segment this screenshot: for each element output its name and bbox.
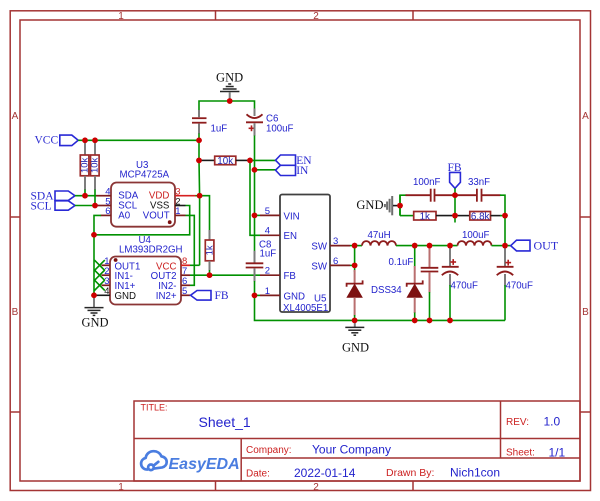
wire L2 to OUT node xyxy=(492,245,506,247)
node 0.1uF rail junction xyxy=(427,318,433,324)
svg-text:A: A xyxy=(12,111,19,122)
svg-text:IN2+: IN2+ xyxy=(156,291,177,302)
frame column tick top 1|2 xyxy=(215,10,217,20)
node SDA/R1 junction xyxy=(82,193,88,199)
node D2 junction xyxy=(412,243,418,249)
U3 pin 6 A0 xyxy=(101,206,131,221)
svg-text:2: 2 xyxy=(265,266,270,277)
svg-text:5: 5 xyxy=(265,206,270,217)
svg-text:GND: GND xyxy=(356,198,383,212)
wire divider left vertical xyxy=(399,195,401,215)
svg-text:REV:: REV: xyxy=(506,417,529,428)
svg-text:GND: GND xyxy=(81,316,108,330)
U4 pin 5 IN2+ xyxy=(156,286,190,302)
U5 pin 5 VIN xyxy=(260,206,300,223)
ground symbol bottom rail xyxy=(342,320,369,354)
wire 6.8k to OUT vertical xyxy=(500,215,505,217)
capacitor 1uF (left decoupling) xyxy=(192,110,227,135)
wire EN vertical to U5 xyxy=(250,160,260,235)
node divider gnd junction xyxy=(397,203,403,209)
node VCC/R2 junction xyxy=(92,138,98,144)
resistor 1k divider xyxy=(400,211,455,222)
node 470uF-1 rail junction xyxy=(447,318,453,324)
svg-text:1: 1 xyxy=(175,206,180,217)
wire 10k to EN node xyxy=(248,159,251,161)
svg-text:1: 1 xyxy=(118,482,124,493)
node divider mid junction xyxy=(452,213,458,219)
svg-text:10k: 10k xyxy=(217,156,233,167)
svg-text:DSS34: DSS34 xyxy=(371,285,402,296)
ground symbol under U4 xyxy=(81,295,108,329)
wire C6 to IN node xyxy=(254,136,256,170)
resistor 10k pullup SDA xyxy=(80,140,91,190)
U5 pin 3 SW xyxy=(311,236,350,253)
wire VSS to ground net xyxy=(94,206,190,235)
U5 pin 2 FB xyxy=(260,266,296,283)
svg-text:FB: FB xyxy=(284,271,296,282)
svg-text:3: 3 xyxy=(333,236,338,247)
wire SW pin3 to node xyxy=(350,245,355,247)
svg-text:4: 4 xyxy=(265,226,270,237)
U5 pin 1 GND xyxy=(260,286,305,303)
svg-text:470uF: 470uF xyxy=(451,280,479,291)
resistor 10k horizontal xyxy=(201,156,249,167)
wire C8 to U5 gnd node xyxy=(254,281,256,295)
wire IN node to IN flag xyxy=(255,169,276,171)
capacitor C6 100uF polarized xyxy=(246,109,294,136)
node 10k feed junction xyxy=(196,158,202,164)
capacitor C8 1uF xyxy=(246,215,277,281)
node D2 rail junction xyxy=(412,318,418,324)
diode D1 DSS34 xyxy=(347,270,363,320)
node top gnd junction xyxy=(227,98,233,104)
comparator U4 LM393DR2GH body xyxy=(110,235,183,305)
wire VIN node to U5 pin5 xyxy=(255,214,261,216)
frame column tick bottom 2|3 xyxy=(412,481,414,491)
wire top gnd rail xyxy=(199,101,255,111)
svg-text:470uF: 470uF xyxy=(506,280,534,291)
svg-text:EasyEDA: EasyEDA xyxy=(169,456,240,473)
node A0/VSS gnd junction xyxy=(91,232,97,238)
junction dots overlay xyxy=(82,98,508,323)
svg-text:Company:: Company: xyxy=(246,445,292,456)
node IN junction xyxy=(252,167,258,173)
wire SW pin6 to node xyxy=(350,264,355,266)
net flag OUT xyxy=(505,239,559,253)
wire R1 to SDA xyxy=(84,190,86,196)
svg-text:GND: GND xyxy=(284,291,306,302)
U4 pin 2 IN1- no-connect cross xyxy=(94,266,132,282)
svg-text:FB: FB xyxy=(215,290,229,302)
svg-text:Drawn By:: Drawn By: xyxy=(386,467,434,479)
svg-text:Sheet_1: Sheet_1 xyxy=(199,414,251,430)
svg-text:A0: A0 xyxy=(118,210,130,221)
svg-text:6: 6 xyxy=(105,206,110,217)
svg-text:10k: 10k xyxy=(90,157,101,173)
wire FB mid vertical xyxy=(454,195,456,222)
svg-text:B: B xyxy=(582,307,589,318)
wire IN node to VIN xyxy=(254,170,256,216)
op-amp U3 MCP4725A body xyxy=(111,160,175,227)
svg-text:1k: 1k xyxy=(420,211,430,222)
svg-text:47uH: 47uH xyxy=(368,230,391,241)
inductor L1 47uH xyxy=(355,230,396,245)
resistor 10k pullup SCL xyxy=(90,140,101,190)
svg-text:GND: GND xyxy=(216,71,243,85)
wire SDA flag to pin4 xyxy=(75,195,96,197)
wire VCC vertical rail xyxy=(198,140,200,160)
node VDD junction xyxy=(197,193,203,199)
title block divider rev column xyxy=(500,401,502,458)
net flag FB top (divider) xyxy=(447,162,461,195)
U3 pin 4 SDA xyxy=(96,187,139,202)
wire U5 gnd pin link xyxy=(255,294,261,296)
node FB flag junction xyxy=(452,192,458,198)
svg-text:SCL: SCL xyxy=(31,200,52,212)
svg-text:LM393DR2GH: LM393DR2GH xyxy=(119,245,183,256)
svg-text:1/1: 1/1 xyxy=(549,446,566,460)
node 0.1uF junction xyxy=(427,243,433,249)
U4 pin 8 VCC xyxy=(156,256,190,272)
svg-text:6: 6 xyxy=(333,256,338,267)
inductor L2 100uF xyxy=(458,230,492,245)
svg-text:100nF: 100nF xyxy=(413,177,441,188)
node divider right junction xyxy=(502,213,508,219)
wire gnd node down to bottom rail xyxy=(255,295,506,320)
svg-text:SW: SW xyxy=(311,242,327,253)
frame row tick right B|C xyxy=(580,411,591,413)
svg-text:MCP4725A: MCP4725A xyxy=(120,170,170,181)
node SCL/R2 junction xyxy=(92,203,98,209)
ground GND top symbol xyxy=(216,71,243,100)
wire EN node to EN flag xyxy=(250,159,276,161)
capacitor 0.1uF xyxy=(389,246,439,321)
svg-text:1.0: 1.0 xyxy=(544,415,561,429)
U4 pin 1 OUT1 no-connect cross xyxy=(94,256,140,272)
U5 pin 6 SW xyxy=(311,256,350,273)
svg-text:1: 1 xyxy=(118,11,124,22)
wire A0 to ground net xyxy=(94,215,101,234)
svg-text:2: 2 xyxy=(313,482,319,493)
wire SW vertical xyxy=(354,246,356,272)
resistor 6.8k divider xyxy=(455,211,501,222)
svg-text:VCC: VCC xyxy=(35,135,59,147)
node OUT2/1k junction xyxy=(207,272,213,278)
svg-text:Your Company: Your Company xyxy=(312,443,391,457)
U4 pin 6 IN2- xyxy=(158,276,190,292)
node OUT junction xyxy=(502,243,508,249)
svg-text:Sheet:: Sheet: xyxy=(506,448,535,459)
frame row tick left A|B xyxy=(10,216,20,218)
net flag SDA xyxy=(31,191,76,203)
U4 pin 7 OUT2 xyxy=(151,266,190,282)
net flag VCC xyxy=(35,135,79,147)
U5 pin 4 EN xyxy=(260,226,297,243)
svg-text:VOUT: VOUT xyxy=(143,210,170,221)
svg-text:GND: GND xyxy=(342,341,369,355)
node U4 gnd junction xyxy=(91,293,97,299)
wire R2 to SCL xyxy=(94,190,96,206)
frame column tick bottom 1|2 xyxy=(215,481,217,491)
node bottom rail gnd junction xyxy=(352,318,358,324)
ground GND sideways symbol xyxy=(356,196,400,215)
wire divider top rail right corner xyxy=(500,195,505,215)
title block divider logo cell xyxy=(240,439,242,482)
U4 pin 3 IN1+ no-connect cross xyxy=(94,276,135,292)
svg-text:GND: GND xyxy=(115,291,137,302)
U3 pin 2 VSS xyxy=(150,196,185,211)
node VCC/R1 junction xyxy=(82,138,88,144)
diode D2 DSS34 xyxy=(371,246,423,321)
capacitor 33nF xyxy=(455,177,501,202)
wire divider top rail left corner xyxy=(400,195,407,215)
svg-text:B: B xyxy=(12,307,19,318)
svg-text:IN: IN xyxy=(296,165,309,177)
svg-text:A: A xyxy=(582,111,589,122)
wire VDD to VCC rail xyxy=(196,195,200,197)
node VCC/1uF junction xyxy=(196,138,202,144)
wire SCL flag to pin5 xyxy=(75,205,96,207)
wire 1uF to VCC rail xyxy=(198,134,200,141)
svg-text:OUT: OUT xyxy=(534,239,559,253)
wire gnd net down to U4 pin4 xyxy=(93,235,95,295)
svg-text:VIN: VIN xyxy=(284,211,300,222)
svg-text:1: 1 xyxy=(265,286,270,297)
node U5 gnd junction xyxy=(252,293,258,299)
net flag FB at U4 xyxy=(191,290,229,302)
node 470uF-1 junction xyxy=(447,243,453,249)
wire VOUT to IN2- xyxy=(186,215,195,285)
title block outline xyxy=(134,401,580,481)
svg-text:5: 5 xyxy=(182,286,187,297)
node VIN junction xyxy=(252,213,258,219)
svg-text:6.8k: 6.8k xyxy=(471,211,490,222)
frame row tick right A|B xyxy=(580,216,591,218)
net flag EN xyxy=(276,155,313,167)
title block divider under title row xyxy=(134,438,580,440)
capacitor 470uF no.1 polarized xyxy=(442,246,478,321)
wire VCC rail to U4 pin8 xyxy=(190,264,200,266)
resistor 1k vertical xyxy=(200,196,216,276)
svg-text:EN: EN xyxy=(284,231,297,242)
svg-text:4: 4 xyxy=(104,286,109,297)
node SW bottom junction xyxy=(352,263,358,269)
U3 pin 5 SCL xyxy=(96,196,138,211)
svg-text:2022-01-14: 2022-01-14 xyxy=(294,466,356,480)
regulator U5 XL4005E1 body xyxy=(280,195,330,314)
svg-text:Date:: Date: xyxy=(246,469,270,480)
wire divider to OUT node vertical xyxy=(504,216,506,246)
U3 pin 3 VDD xyxy=(149,187,196,202)
EasyEDA logo cloud icon xyxy=(141,451,167,470)
wire L1 to output caps xyxy=(396,245,458,247)
frame column tick top 2|3 xyxy=(412,10,414,20)
node EN junction xyxy=(247,158,253,164)
wire VCC flag to rail xyxy=(78,139,199,141)
svg-text:1uF: 1uF xyxy=(211,124,228,135)
svg-text:100uF: 100uF xyxy=(462,230,490,241)
svg-text:Nich1con: Nich1con xyxy=(450,466,500,480)
wire OUT2 to FB pin of U5 xyxy=(190,274,260,276)
U4 pin 4 GND xyxy=(94,286,136,302)
U3 pin 1 VOUT xyxy=(143,206,186,221)
svg-text:TITLE:: TITLE: xyxy=(141,403,168,413)
capacitor 470uF no.2 polarized xyxy=(497,246,533,321)
svg-text:XL4005E1: XL4005E1 xyxy=(283,303,328,314)
capacitor 100nF xyxy=(406,177,456,202)
svg-text:1k: 1k xyxy=(205,245,216,255)
frame row tick left B|C xyxy=(10,411,20,413)
svg-text:1uF: 1uF xyxy=(260,249,277,260)
svg-text:100uF: 100uF xyxy=(266,124,294,135)
node SW top junction xyxy=(352,243,358,249)
svg-text:SW: SW xyxy=(311,261,327,272)
net flag SCL xyxy=(31,200,76,212)
net flag IN xyxy=(276,165,310,177)
svg-text:0.1uF: 0.1uF xyxy=(389,257,414,268)
svg-text:33nF: 33nF xyxy=(468,177,490,188)
svg-text:2: 2 xyxy=(313,11,319,22)
title block divider company/date row xyxy=(241,457,580,459)
